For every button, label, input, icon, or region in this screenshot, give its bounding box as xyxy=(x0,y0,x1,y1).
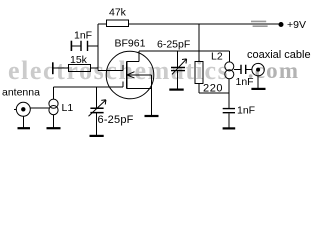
transistor Q1 BF961 circle xyxy=(106,51,154,99)
ground L1 xyxy=(47,127,61,129)
label 47k xyxy=(109,7,127,19)
label antenna xyxy=(2,87,40,99)
svg-text:BF961: BF961 xyxy=(115,38,146,50)
ground bottom 1nF xyxy=(223,127,236,129)
label +9V xyxy=(287,19,306,31)
wire trimmer CT1 bottom lead xyxy=(96,113,98,135)
svg-text:15k: 15k xyxy=(70,54,88,66)
wire trimmer CT2 top lead xyxy=(177,51,179,67)
resistor R2 ground end bar xyxy=(52,62,54,74)
svg-text:L1: L1 xyxy=(62,102,74,114)
svg-text:6-25pF: 6-25pF xyxy=(98,114,134,126)
wire 220 bottom jog xyxy=(199,84,229,94)
wire C4 to coax xyxy=(246,69,252,71)
coax connector J2 xyxy=(252,63,264,75)
chassis marks +9V xyxy=(251,21,268,26)
wire rail to 220 feed xyxy=(198,24,200,62)
ground source xyxy=(145,115,159,117)
label 1nF C4 xyxy=(236,76,254,88)
ground antenna xyxy=(18,127,31,129)
svg-text:6-25pF: 6-25pF xyxy=(157,39,190,51)
wire trimmer CT2 ground lead xyxy=(177,71,179,89)
wire 1nF C1 left xyxy=(72,45,82,47)
wire bottom 1nF ground lead xyxy=(228,113,230,127)
transistor Q1 channel xyxy=(126,62,128,89)
ground trimmer CT1 xyxy=(90,135,104,137)
watermark electroschematics.com xyxy=(0,0,323,1)
capacitor C4 1nF coupling plates xyxy=(241,65,246,74)
label L1 xyxy=(62,102,74,114)
svg-text:1nF: 1nF xyxy=(236,76,254,88)
wire L2 top lead xyxy=(228,51,230,62)
wire antenna ground lead xyxy=(22,116,24,127)
label 1nF C1 xyxy=(74,30,92,42)
trimmer capacitor CT2 arrow xyxy=(172,59,187,75)
antenna connector J1 xyxy=(16,102,30,116)
capacitor C1 1nF plates xyxy=(81,41,88,51)
inductor L2 coil xyxy=(225,62,234,79)
label coaxial cable xyxy=(247,49,311,61)
inductor L1 coil xyxy=(49,99,58,115)
svg-text:220: 220 xyxy=(203,83,223,95)
wire L2 bottom lead xyxy=(228,79,230,108)
label 6-25pF CT2 xyxy=(157,39,190,51)
transistor Q1 gate bars xyxy=(122,65,124,87)
svg-text:L2: L2 xyxy=(211,51,223,63)
capacitor C1 ground end bar xyxy=(70,41,72,51)
label L2 xyxy=(211,51,223,63)
capacitor C3 1nF bottom plates xyxy=(223,109,235,113)
trimmer capacitor CT2 plates xyxy=(171,68,185,71)
wire 15k right xyxy=(91,67,98,69)
wire antenna to L1 tap xyxy=(30,107,49,109)
transistor Q1 drain stub xyxy=(127,61,139,63)
trimmer capacitor CT1 arrow xyxy=(89,100,106,117)
wire 15k left xyxy=(53,67,69,69)
wire coax ground lead xyxy=(257,76,259,89)
label 220 xyxy=(203,83,223,95)
ground trimmer CT2 xyxy=(169,88,183,90)
wire antenna stub xyxy=(14,108,16,110)
svg-text:antenna: antenna xyxy=(2,87,40,99)
wire drain tank line xyxy=(139,51,230,61)
label 15k xyxy=(70,54,88,66)
svg-text:47k: 47k xyxy=(109,7,127,19)
svg-text:1nF: 1nF xyxy=(74,30,92,42)
watermark spans are absolutely positioned xyxy=(0,0,323,156)
node +9V dot xyxy=(279,22,284,27)
wire gate1 from L1 xyxy=(54,87,124,99)
wire 47k left to gate2 feed xyxy=(98,24,107,70)
resistor R1 47k body xyxy=(107,20,129,27)
wire L1 ground lead xyxy=(53,115,55,128)
label BF961 xyxy=(115,38,146,50)
wire source ground lead xyxy=(151,75,153,115)
resistor R2 15k body xyxy=(69,65,91,72)
svg-text:1nF: 1nF xyxy=(237,105,255,117)
wire trimmer CT1 top lead xyxy=(96,87,98,108)
wire gate2 lead xyxy=(98,69,123,71)
transistor Q1 source stub xyxy=(127,88,152,90)
label 1nF C3 xyxy=(237,105,255,117)
svg-text:coaxial cable: coaxial cable xyxy=(247,49,311,61)
trimmer capacitor CT1 plates xyxy=(90,108,103,112)
wire 1nF C1 right xyxy=(88,45,98,47)
label 6-25pF CT1 xyxy=(98,114,134,126)
svg-text:+9V: +9V xyxy=(287,19,306,31)
wire L2 tap to C4 xyxy=(234,69,241,71)
wire +9V rail xyxy=(129,23,280,25)
transistor Q1 substrate arrow xyxy=(127,72,152,78)
ground coax xyxy=(251,88,265,90)
resistor R3 220 body xyxy=(195,62,203,84)
